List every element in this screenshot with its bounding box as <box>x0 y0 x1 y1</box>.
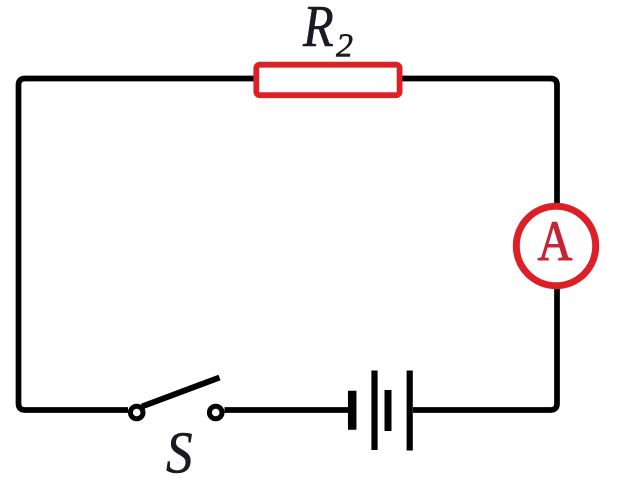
switch S: lever arm <box>142 378 220 407</box>
switch S: left terminal <box>130 406 143 419</box>
battery cell 2: negative plate (short) <box>385 390 392 431</box>
svg-text:S: S <box>166 421 193 478</box>
ammeter U1 <box>516 206 595 285</box>
wire: top-left from resistor left terminal, down left side, to switch left terminal <box>19 79 254 411</box>
svg-text:2: 2 <box>336 28 353 65</box>
svg-text:R: R <box>302 0 334 59</box>
wire: top-right from resistor right terminal to right side down to ammeter top <box>403 79 558 205</box>
battery cell 2: positive plate (long) <box>407 371 413 451</box>
battery cell 1: positive plate (long) <box>371 371 377 451</box>
battery cell 1: negative plate (short) <box>348 391 357 430</box>
wire: right side from ammeter bottom down to battery positive terminal <box>413 288 557 410</box>
svg-text:A: A <box>538 210 573 273</box>
wire: from switch right terminal to battery negative terminal <box>225 407 349 413</box>
switch S: right terminal <box>209 406 222 419</box>
resistor R2 <box>256 65 399 96</box>
